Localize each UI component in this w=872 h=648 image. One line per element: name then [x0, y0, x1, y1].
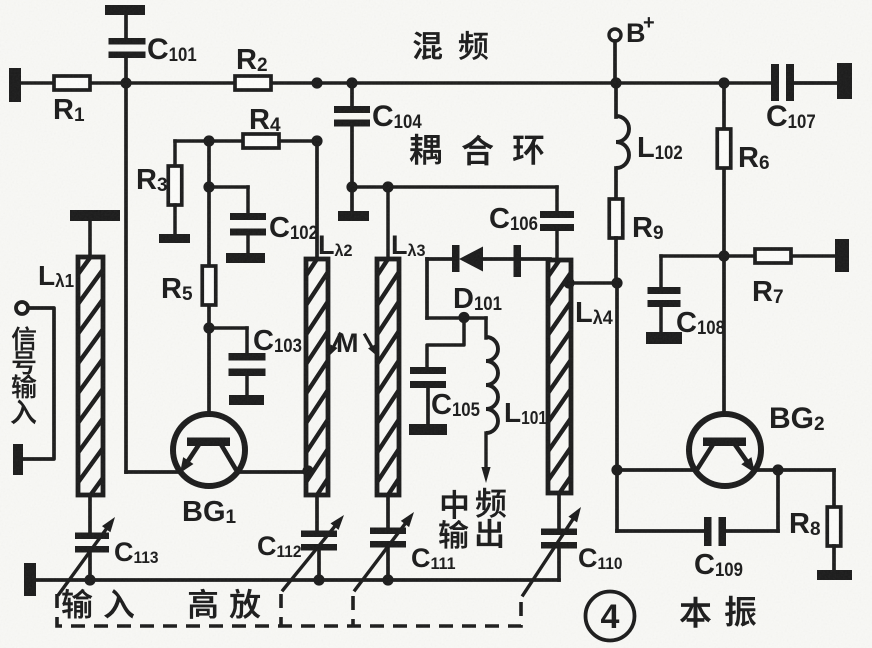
wire Llambda2 stem — [315, 141, 319, 259]
wire bottom bus — [36, 578, 559, 582]
wire C109 right leg — [726, 470, 778, 531]
text local osc (ben) — [680, 597, 711, 628]
label Llambda3 — [391, 230, 426, 260]
arrow M to Llambda3 — [365, 335, 377, 356]
text coupling loop (ou) — [410, 134, 441, 165]
capacitor C110 (variable) — [523, 507, 581, 595]
label C107 — [766, 100, 816, 133]
node M1 (L101 branch) — [458, 312, 469, 323]
capacitor C102 — [209, 187, 266, 256]
wire input loop — [24, 308, 54, 459]
node K (C104 bottom junction) — [346, 181, 357, 192]
node B (R2 right / Llambda2 feed) — [311, 77, 322, 88]
capacitor C105 — [410, 367, 446, 427]
label BG1 — [182, 496, 237, 528]
wire Llambda4 to C110 — [557, 493, 561, 529]
node Q (R9 column / BG2) — [611, 464, 622, 475]
wire Llambda3 to C111 — [386, 495, 390, 528]
node T (C112 bottom) — [313, 574, 324, 585]
wire R9 column down — [615, 283, 619, 470]
capacitor C101 — [109, 14, 146, 83]
capacitor C113 (variable) — [59, 517, 115, 594]
node S (C113 bottom) — [84, 574, 95, 585]
text signal input (xin) — [12, 326, 36, 350]
inductor Llambda3 — [374, 238, 402, 516]
resistor R3 — [136, 141, 182, 236]
wire Llambda4 tap to R9 column — [569, 281, 617, 285]
node O (R9 bottom) — [611, 277, 622, 288]
wire top supply bus — [20, 81, 772, 85]
label M (mutual coupling) — [336, 328, 359, 358]
inductor Llambda2 — [303, 238, 331, 516]
label C103 — [253, 325, 302, 357]
label C106 — [489, 203, 538, 235]
node C (C104 top) — [346, 77, 357, 88]
resistor R1 — [53, 76, 90, 126]
label C113 — [114, 537, 159, 567]
ground G4 (below R3) — [159, 234, 190, 243]
figure number 4 — [586, 592, 635, 641]
node F (R3/R4/R5 junction) — [203, 135, 214, 146]
wire branch to L101 — [427, 318, 486, 338]
resistor R9 — [609, 199, 663, 283]
label C102 — [269, 212, 318, 244]
label C101 — [147, 33, 197, 66]
capacitor C104 — [334, 83, 370, 187]
wire BG2 left — [617, 468, 696, 472]
label D101 — [453, 283, 502, 315]
label BG2 — [769, 402, 825, 435]
text coupling loop (he) — [462, 135, 493, 166]
node A (C101/bus junction) — [120, 77, 131, 88]
label C109 — [694, 549, 743, 581]
resistor R7 — [752, 249, 791, 308]
arrow M to Llambda2 — [329, 334, 340, 356]
label C110 — [578, 543, 623, 573]
ground G11 (below C108) — [646, 332, 682, 344]
text signal input (hao) — [13, 351, 36, 374]
text IF out (chu) — [477, 519, 502, 548]
text RF amp (fang) — [230, 589, 261, 619]
label C112 — [257, 531, 302, 561]
label C104 — [372, 100, 422, 133]
antenna bar (top of Llambda1) — [70, 210, 120, 257]
ground G10 (right of R7) — [835, 239, 849, 272]
capacitor C109 — [704, 517, 726, 546]
node I (C103 branch) — [203, 322, 214, 333]
label L101 — [504, 397, 547, 428]
transistor BG2 — [689, 414, 761, 486]
wire Llambda2 to C112 — [315, 495, 319, 531]
text RF amp (gao) — [189, 589, 217, 619]
text local osc (zhen) — [725, 596, 756, 627]
wire BG2 emitter right — [754, 468, 834, 472]
wire bus to BG1 emitter — [126, 83, 177, 472]
wire Llambda3 stem — [386, 187, 390, 259]
node E (R6 top) — [718, 77, 729, 88]
label Llambda4 — [575, 297, 613, 329]
resistor R8 — [789, 470, 841, 572]
inductor L102 — [616, 83, 629, 200]
capacitor C111 (variable) — [355, 512, 414, 590]
text input section (shu) — [62, 589, 92, 619]
ground G3 (right of C107) — [837, 63, 852, 99]
resistor R4 — [243, 104, 281, 148]
ground G12 (below R8) — [817, 570, 852, 580]
label C111 — [411, 543, 456, 573]
wire coupling row — [352, 185, 557, 189]
node G (R4 right on Llambda2 column) — [311, 135, 322, 146]
label B+ — [626, 12, 655, 48]
terminal B+ — [609, 29, 621, 83]
ground G7 (input loop) — [13, 444, 23, 475]
ground G13 (bottom bus left) — [24, 563, 36, 596]
node U (C111 bottom) — [382, 574, 393, 585]
label L102 — [637, 132, 683, 164]
wire D101 anode down — [425, 259, 429, 318]
node L (Llambda3 feed) — [382, 181, 393, 192]
inductor L101 — [481, 337, 498, 483]
ground G2 (top of C101) — [105, 5, 145, 15]
capacitor C106 — [540, 187, 574, 260]
node J (collector tap on Llambda2) — [302, 465, 313, 476]
dashed gang line — [57, 594, 521, 626]
text IF out (pin) — [476, 488, 506, 518]
wire R7 row — [661, 254, 837, 258]
transistor BG1 — [173, 414, 245, 486]
ground G1 (left of R1) — [9, 68, 21, 102]
ground G5 (below C102) — [226, 253, 265, 263]
ground G8 (below C104) — [338, 187, 369, 221]
label C105 — [431, 389, 480, 421]
wire R5 column — [207, 141, 211, 414]
text IF out (zhong) — [442, 490, 467, 519]
node D (B+ feed) — [610, 77, 621, 88]
text coupling loop (huan) — [513, 136, 544, 165]
wire R4 left — [175, 139, 243, 143]
capacitor C107 — [771, 64, 838, 101]
inductor Llambda1 — [75, 236, 106, 517]
text input section (ru) — [104, 589, 134, 618]
node H (C102 branch) — [203, 181, 214, 192]
label Llambda1 — [38, 260, 74, 291]
wire R4 right — [279, 139, 317, 143]
wire C109 left leg — [617, 470, 705, 531]
label Llambda2 — [318, 230, 353, 260]
text IF out (shu) — [439, 520, 468, 549]
capacitor C112 (variable) — [283, 515, 344, 590]
resistor R2 — [235, 44, 271, 90]
ground G6 (below C103) — [229, 395, 264, 405]
node N (Llambda4 tap) — [563, 277, 574, 288]
text signal input (shu) — [12, 374, 37, 398]
text signal input (ru) — [11, 399, 36, 424]
capacitor C103 — [209, 328, 266, 397]
wire branch to C105 — [427, 318, 464, 368]
text mixing (hun) — [413, 31, 442, 60]
wire Llambda1 to C113 — [88, 495, 92, 531]
node R (emitter/R8 junction) — [772, 464, 783, 475]
resistor R5 — [161, 266, 216, 305]
inductor Llambda4 — [545, 239, 574, 514]
wire BG1 collector to Llambda2 — [240, 470, 307, 474]
text mixing (pin) — [459, 31, 488, 60]
wire R6 to BG2 base — [722, 256, 726, 414]
capacitor C108 — [648, 256, 681, 334]
diode D101 — [427, 245, 550, 277]
resistor R6 — [717, 83, 769, 256]
terminal signal input — [16, 302, 28, 314]
ground G9 (below C105) — [409, 424, 447, 435]
label C108 — [676, 307, 725, 339]
node P (R6 bottom junction) — [718, 250, 729, 261]
